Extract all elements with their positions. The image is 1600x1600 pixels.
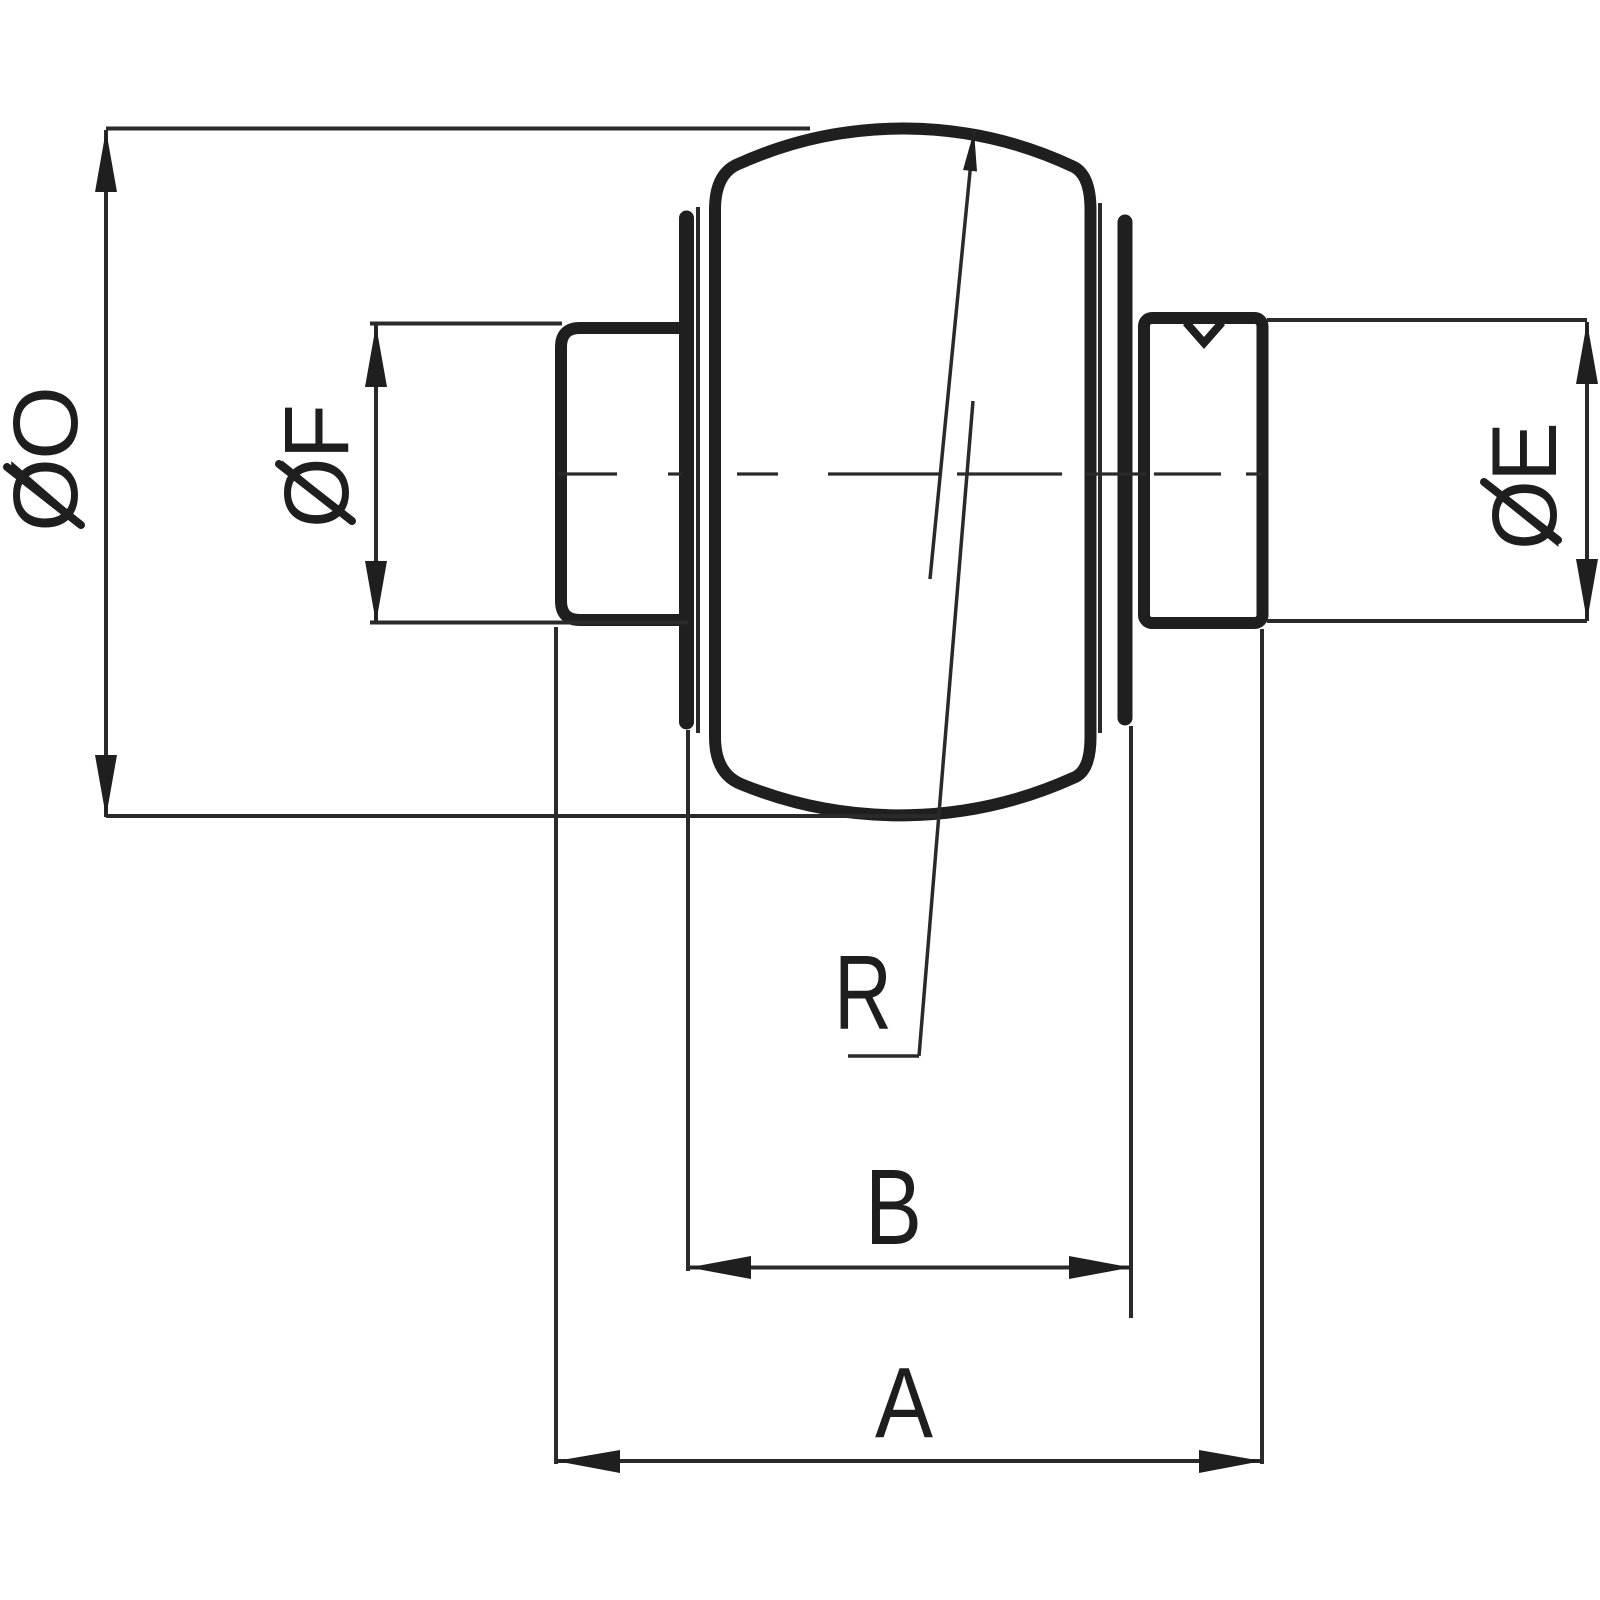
svg-text:A: A	[875, 1347, 933, 1459]
svg-text:R: R	[834, 934, 892, 1052]
svg-text:ØO: ØO	[0, 388, 97, 532]
svg-text:B: B	[865, 1146, 922, 1267]
